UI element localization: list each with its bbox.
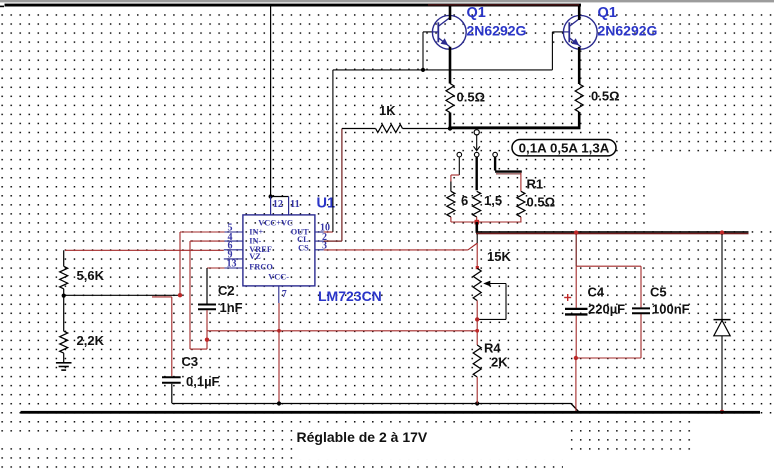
transistor Q1 2N6292G (left): [432, 15, 466, 49]
shunt bottom bus wire: [451, 221, 522, 223]
svg-text:0.5Ω: 0.5Ω: [457, 89, 486, 104]
wire CL pin2 up to 1K: [324, 240, 342, 242]
svg-text:C5: C5: [650, 284, 667, 299]
svg-text:Q1: Q1: [598, 5, 617, 21]
svg-text:C4: C4: [588, 284, 605, 299]
svg-text:CS: CS: [298, 244, 309, 253]
wire diode to bottom rail: [721, 336, 723, 412]
top supply rail V+: [5, 4, 582, 7]
red junction dot C4 bottom node: [574, 356, 578, 360]
svg-text:LM723CN: LM723CN: [318, 288, 382, 304]
C4 plus polarity mark: [564, 297, 571, 299]
red junction dot R4 top node: [475, 329, 479, 333]
svg-text:0,1µF: 0,1µF: [186, 374, 220, 389]
Q2 collector heavy wire: [578, 6, 581, 20]
junction dot pin7 on ground wire: [277, 401, 281, 405]
wire divider node to C3 top: [152, 296, 172, 298]
svg-text:U1: U1: [317, 195, 336, 211]
shunt resistor 1,5 ohm: [473, 191, 481, 217]
junction dot C4 branch on output bus: [574, 230, 578, 234]
top window border grey strip: [0, 0, 774, 2]
svg-text:C3: C3: [182, 354, 199, 369]
svg-text:Réglable de 2 à 17V: Réglable de 2 à 17V: [297, 429, 428, 445]
resistor 1K: [342, 128, 376, 130]
junction dot diode branch on output bus: [720, 230, 724, 234]
svg-text:1nF: 1nF: [220, 300, 243, 315]
svg-text:FRCO: FRCO: [249, 263, 273, 272]
junction dot R4 on ground wire: [475, 401, 479, 405]
switch throw contact 1: [457, 152, 462, 157]
wire connecting pin 12 and pin 11 risers: [270, 196, 289, 198]
resistor 2,2K: [60, 331, 68, 353]
wire contact3 to R1 (heavy): [494, 157, 496, 171]
U1 left pin stubs 5 4 6 9 13: [224, 231, 243, 233]
transistor Q1 2N6292G (right): [563, 15, 597, 49]
svg-text:1K: 1K: [379, 103, 396, 118]
wire VREF pin6 to top of R 5,6K: [65, 249, 224, 251]
wire Q2 base: [551, 32, 553, 70]
U1 pin 11 riser: [288, 197, 290, 215]
op-amp regulator U1 LM723CN body: [243, 215, 315, 286]
shunt resistor R1 0.5 ohm: [517, 191, 525, 217]
svg-text:0.5Ω: 0.5Ω: [591, 88, 620, 103]
svg-text:VCC+VC: VCC+VC: [258, 218, 293, 227]
svg-text:220µF: 220µF: [588, 301, 625, 316]
junction dot divider node: [62, 294, 66, 298]
wire VCC- pin7 down to ground wire: [278, 303, 280, 404]
red junction dot on C2 leg: [205, 338, 209, 342]
wire C4-C5 parallel loop: [576, 265, 641, 267]
wire Q1 base: [422, 32, 424, 70]
resistor 5,6K: [63, 250, 65, 266]
svg-text:1,5: 1,5: [484, 193, 502, 208]
svg-text:VZ: VZ: [249, 252, 261, 261]
ground symbol: [56, 362, 72, 364]
svg-text:13: 13: [227, 259, 237, 270]
svg-text:2,2K: 2,2K: [77, 333, 105, 348]
heavy connector from shunt bus to output bus: [475, 222, 478, 233]
shunt resistor 6 ohm: [450, 182, 452, 192]
wire contact1 to resistor 6: [458, 157, 460, 175]
current range label box 0,1A 0,5A 1,3A: [512, 140, 616, 156]
svg-text:5,6K: 5,6K: [77, 268, 105, 283]
wire divider node to IN+ drop: [64, 294, 180, 296]
wire IN+ pin5 left and down: [180, 231, 225, 233]
grid void patch right middle: [648, 157, 774, 229]
junction dot 1K at emitter bus: [448, 126, 452, 130]
red junction dot IN+ node: [178, 293, 182, 297]
capacitor C4 220µF polarized: [575, 266, 577, 308]
svg-text:IN+: IN+: [249, 228, 263, 237]
U1 right pin stubs 10 2 3: [315, 231, 324, 233]
wire contact2 to resistor 1,5 (heavy): [476, 157, 478, 190]
svg-text:R1: R1: [527, 176, 544, 191]
red junction dot pot bottom: [475, 317, 479, 321]
red junction dot diode bottom: [720, 410, 724, 414]
Q1 emitter heavy wire: [449, 47, 452, 84]
wire FRCO pin13 to C2 top: [207, 267, 225, 269]
output bus heavy wire: [476, 231, 749, 233]
wire OUT pin10 up to base drive node: [324, 231, 333, 233]
wire output bus to C4: [575, 234, 577, 266]
wire output bus down to potentiometer: [476, 234, 478, 243]
U1 bottom pin stub 7: [278, 286, 280, 303]
svg-text:2N6292G: 2N6292G: [598, 22, 658, 38]
svg-text:11: 11: [290, 199, 300, 210]
red junction dot where pin7 wire crosses: [277, 329, 281, 333]
potentiometer 15K: [473, 268, 481, 300]
capacitor C2: [206, 268, 208, 304]
grid void patch around caption: [294, 423, 564, 459]
capacitor C5 100nF: [632, 307, 650, 309]
svg-text:0,1A 0,5A 1,3A: 0,1A 0,5A 1,3A: [519, 140, 610, 155]
junction dot Q1 base drop: [421, 68, 425, 72]
wire C2 node to R4 top (long horizontal): [207, 330, 477, 332]
svg-text:7: 7: [282, 289, 287, 300]
switch throw contact 3: [493, 152, 498, 157]
svg-text:R4: R4: [484, 340, 501, 355]
svg-text:100nF: 100nF: [652, 301, 690, 316]
red junction square pot top: [476, 266, 479, 269]
svg-text:15K: 15K: [487, 249, 511, 264]
wire output bus to diode: [721, 234, 723, 319]
svg-text:VCC-: VCC-: [268, 273, 289, 282]
diode D1: [714, 319, 731, 321]
dark red overlay on top rail: [428, 4, 579, 6]
svg-text:6: 6: [461, 193, 468, 208]
potentiometer wiper arrow: [489, 283, 506, 285]
wire C4 node down to bottom rail: [575, 358, 577, 411]
emitter ballast resistor 0.5Ω (left): [446, 84, 454, 113]
wire CS pin3 to output sense node: [324, 249, 468, 251]
resistor R4 2K: [473, 345, 481, 377]
bottom return rail: [21, 411, 761, 414]
emitter ballast resistor 0.5Ω (right): [575, 84, 583, 112]
svg-text:12: 12: [273, 199, 283, 210]
svg-text:IN-: IN-: [249, 236, 261, 245]
top rail left end tick: [0, 6, 4, 8]
red junction square at shunt bus: [475, 220, 480, 225]
grid void patch near transistor bases: [428, 45, 567, 78]
grid void band bottom left: [0, 438, 160, 447]
grid void patch bottom right: [695, 414, 774, 476]
emitter bus heavy wire: [449, 126, 581, 129]
wire from top rail down to U1 pins 12/11: [270, 6, 272, 197]
svg-text:2N6292G: 2N6292G: [467, 22, 527, 38]
ground return wire along bottom: [172, 403, 571, 405]
U1 pin 12 riser: [270, 197, 272, 215]
svg-text:0.5Ω: 0.5Ω: [527, 194, 556, 209]
switch pole contact on bus: [474, 130, 479, 135]
base drive horizontal wire: [333, 69, 553, 71]
wire pot to R4: [476, 301, 478, 345]
svg-text:2K: 2K: [491, 354, 508, 369]
Q1 collector heavy wire: [449, 6, 452, 20]
junction dot at pin 12 riser top: [269, 194, 273, 198]
switch arm arrow: [476, 135, 478, 150]
capacitor C3: [171, 297, 173, 376]
switch throw contact 2: [474, 152, 479, 157]
svg-text:C2: C2: [218, 283, 235, 298]
Q2 emitter heavy wire: [578, 47, 581, 84]
svg-text:Q1: Q1: [467, 5, 486, 21]
wire IN- pin4 left-down-right to C2 bottom: [190, 240, 225, 242]
